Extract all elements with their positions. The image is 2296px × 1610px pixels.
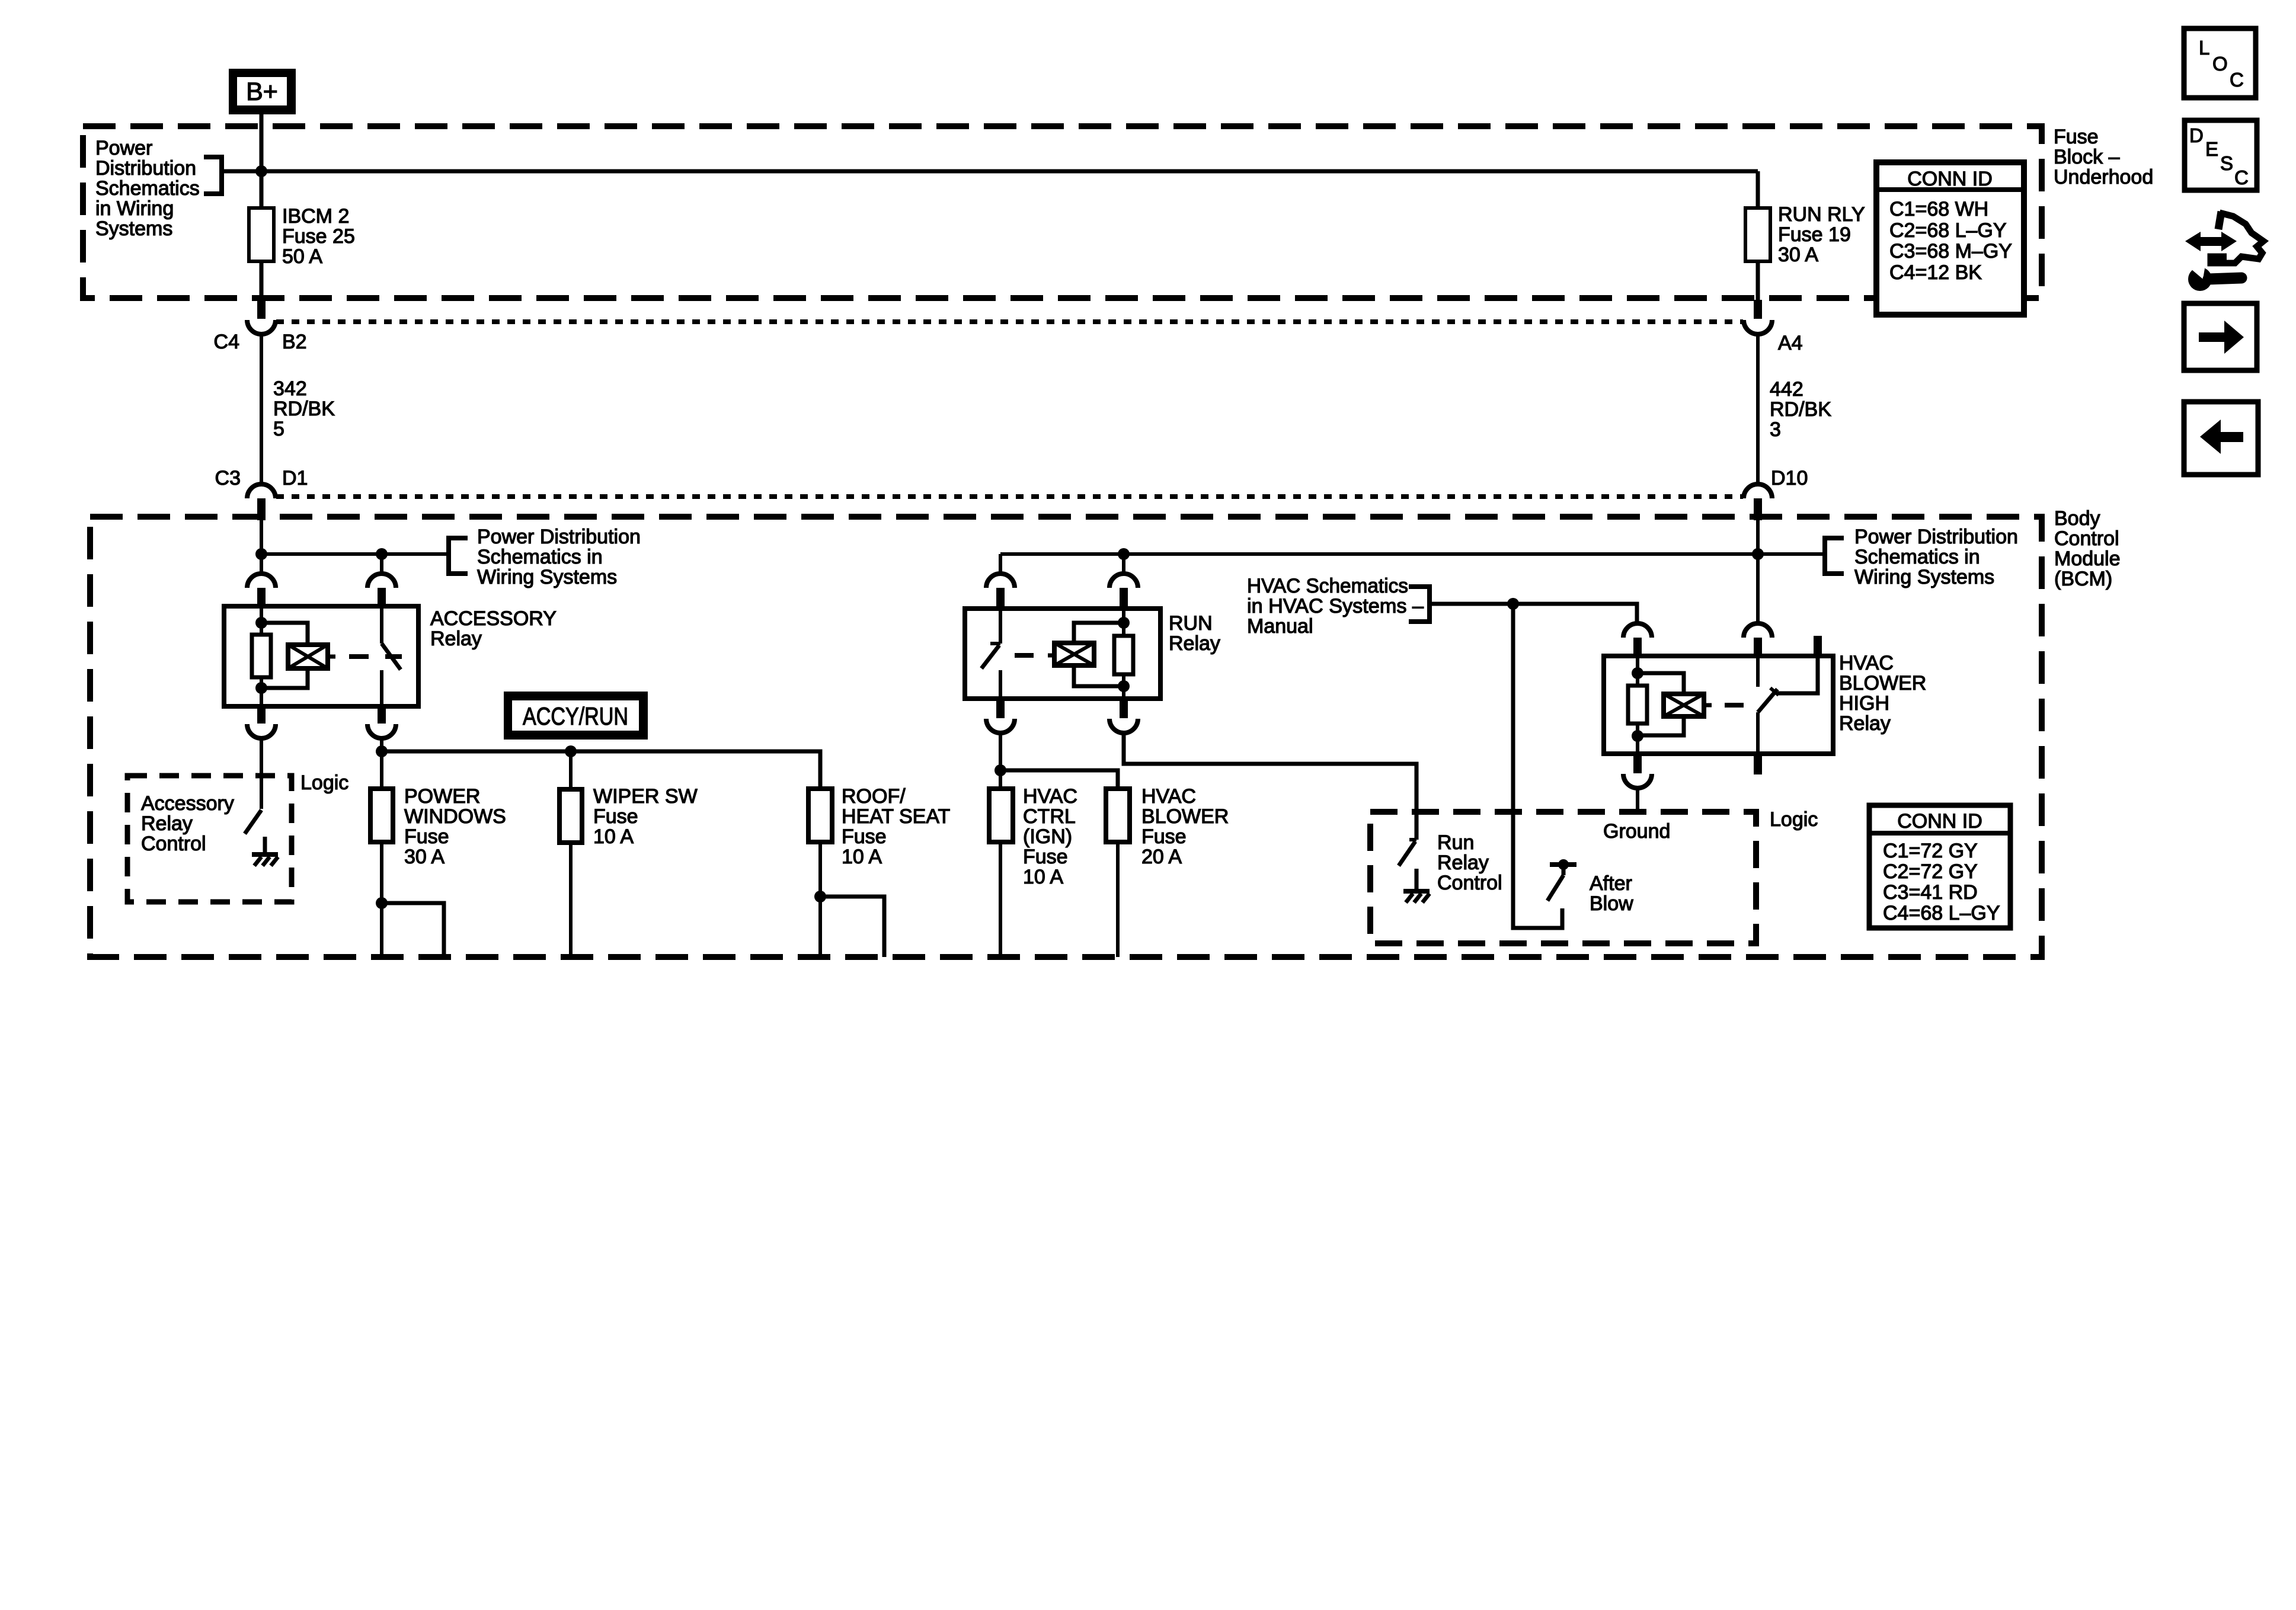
note text: Power Distribution Schematics in Wiring Systems (BCM left) <box>477 526 641 588</box>
svg-text:B+: B+ <box>246 78 278 106</box>
label ROOF/HEAT SEAT Fuse 10 A <box>842 785 950 868</box>
ground (accessory relay control) <box>252 854 278 866</box>
svg-text:HVAC: HVAC <box>1023 785 1077 808</box>
svg-text:C3: C3 <box>215 467 241 489</box>
resistor in run relay <box>1114 636 1133 674</box>
svg-text:Fuse 19: Fuse 19 <box>1778 223 1851 246</box>
relay ACCESSORY Relay box <box>224 606 418 706</box>
dashed actuating link (run relay) <box>1015 653 1034 658</box>
fuse POWER WINDOWS 30A <box>370 789 393 842</box>
svg-text:Run: Run <box>1437 831 1474 854</box>
label Body Control Module (BCM) <box>2054 507 2121 590</box>
svg-text:Wiring Systems: Wiring Systems <box>477 566 617 588</box>
fuse block underhood dashed box <box>83 126 2042 298</box>
svg-text:50 A: 50 A <box>282 245 322 268</box>
CONN ID table (fuse block) <box>1876 162 2024 315</box>
wire run relay coil to run relay control <box>1124 733 1416 840</box>
svg-text:Blow: Blow <box>1590 892 1633 915</box>
svg-text:RD/BK: RD/BK <box>273 398 335 420</box>
wire label 442 RD/BK 3 <box>1770 378 1831 441</box>
svg-text:5: 5 <box>273 418 284 440</box>
label Accessory Relay Control <box>141 792 234 855</box>
bracket for BCM left power note <box>449 538 468 574</box>
svg-text:in Wiring: in Wiring <box>95 197 174 220</box>
junction node run output <box>994 764 1006 776</box>
svg-text:Ground: Ground <box>1603 820 1670 843</box>
svg-text:Relay: Relay <box>1169 632 1220 655</box>
svg-text:Accessory: Accessory <box>141 792 234 815</box>
svg-text:30 A: 30 A <box>1778 244 1818 266</box>
wire roof fuse branch stub <box>820 897 884 957</box>
svg-text:ACCESSORY: ACCESSORY <box>430 607 557 630</box>
svg-text:RD/BK: RD/BK <box>1770 398 1831 421</box>
wire main B+ feed bus <box>222 169 1758 174</box>
body control module dashed box <box>90 517 2042 957</box>
hvac relay switch <box>1758 656 1779 754</box>
label IBCM 2 Fuse 25 50 A <box>282 205 355 268</box>
svg-text:HVAC: HVAC <box>1141 785 1196 808</box>
svg-text:CTRL: CTRL <box>1023 805 1076 828</box>
svg-text:After: After <box>1590 872 1632 895</box>
svg-text:Fuse: Fuse <box>593 805 638 828</box>
svg-text:Relay: Relay <box>141 812 193 835</box>
svg-text:C2=72 GY: C2=72 GY <box>1883 860 1978 883</box>
wire hvac relay switch output to stub <box>1778 656 1818 693</box>
bracket for fuse-block note <box>204 157 222 194</box>
wire hvac coil ground lead <box>1636 788 1639 813</box>
svg-text:Fuse 25: Fuse 25 <box>282 225 355 248</box>
svg-text:Fuse: Fuse <box>842 825 887 848</box>
svg-text:Schematics in: Schematics in <box>1854 546 1980 568</box>
label Run Relay Control <box>1437 831 1502 894</box>
label WIPER SW Fuse 10 A <box>593 785 698 848</box>
bracket for HVAC note <box>1409 587 1430 622</box>
icon schematic-symbols legend (double arrow, outline, wrench) <box>2184 212 2263 291</box>
label RUN RLY Fuse 19 30 A <box>1778 203 1865 266</box>
svg-text:B2: B2 <box>282 331 307 353</box>
label POWER WINDOWS Fuse 30 A <box>404 785 506 868</box>
run relay resistor branch <box>1118 609 1130 699</box>
accessory relay control switch <box>245 810 265 853</box>
svg-text:IBCM 2: IBCM 2 <box>282 205 349 228</box>
wire B+ down to fuse block <box>260 114 264 208</box>
svg-text:20 A: 20 A <box>1141 846 1182 868</box>
svg-text:Power Distribution: Power Distribution <box>477 526 641 548</box>
junction node at B+ feed <box>255 165 267 177</box>
svg-text:Fuse: Fuse <box>2054 126 2099 148</box>
relay HVAC BLOWER HIGH box <box>1604 656 1833 754</box>
junction node accessory switch drop <box>376 548 388 560</box>
run relay top-right pin connector <box>1109 574 1138 609</box>
svg-text:342: 342 <box>273 377 307 400</box>
svg-text:Fuse: Fuse <box>1141 825 1187 848</box>
svg-text:442: 442 <box>1770 378 1803 401</box>
svg-text:10 A: 10 A <box>1023 866 1063 888</box>
run relay control switch <box>1399 840 1416 890</box>
hvac relay top-middle pin connector <box>1744 623 1772 656</box>
wire drop to accessory relay coil <box>260 554 263 575</box>
svg-text:C4=68 L–GY: C4=68 L–GY <box>1883 902 2000 924</box>
ground (run relay control) <box>1403 891 1430 902</box>
svg-text:Control: Control <box>141 833 206 855</box>
wire drop to accessory relay switch <box>380 554 383 575</box>
wire BCM left feed bus <box>261 552 449 556</box>
accessory relay coil loop wiring <box>261 623 308 688</box>
dotted interconnect line row 1 <box>276 319 1743 324</box>
svg-text:Module: Module <box>2054 548 2121 570</box>
fuse RUN RLY Fuse 19 30A <box>1745 208 1770 261</box>
wire run relay switch output to fuses <box>999 733 1002 789</box>
svg-text:Systems: Systems <box>95 217 172 240</box>
junction node accessory output <box>376 745 388 757</box>
icon LOC box <box>2184 28 2256 98</box>
node label box ACCY/RUN <box>504 692 648 740</box>
connector D10 socket and pin <box>1744 484 1772 623</box>
label Fuse Block - Underhood <box>2054 126 2153 188</box>
wire power windows fuse output <box>380 842 383 957</box>
resistor in accessory relay <box>252 635 271 677</box>
wire after blow feeder <box>1513 604 1562 928</box>
note text: HVAC Schematics in HVAC Systems - Manual <box>1247 575 1424 638</box>
dashed actuating link (hvac relay) <box>1725 703 1744 708</box>
svg-text:Control: Control <box>1437 872 1502 894</box>
coil solenoid X-box (hvac relay) <box>1664 694 1712 716</box>
wire drop to run relay switch <box>999 554 1002 575</box>
junction node HVAC feed / after blow <box>1507 598 1519 610</box>
note text: Power Distribution Schematics in Wiring Systems (BCM right) <box>1854 526 2018 588</box>
svg-text:D1: D1 <box>282 467 308 489</box>
svg-text:10 A: 10 A <box>842 846 882 868</box>
svg-text:C1=72 GY: C1=72 GY <box>1883 840 1978 862</box>
accessory relay switch <box>382 606 401 706</box>
hvac relay bottom-left pin connector <box>1623 754 1652 788</box>
svg-text:Power Distribution: Power Distribution <box>1854 526 2018 548</box>
accessory relay top-right pin connector <box>367 574 396 606</box>
fuse ROOF/HEAT SEAT 10A <box>808 789 832 842</box>
label HVAC BLOWER HIGH Relay <box>1839 652 1926 735</box>
hvac relay top-left pin connector <box>1623 623 1652 656</box>
svg-text:HIGH: HIGH <box>1839 692 1889 715</box>
junction node wiper sw drop <box>565 745 577 757</box>
svg-text:Control: Control <box>2054 527 2119 550</box>
svg-text:Logic: Logic <box>1770 808 1818 831</box>
svg-text:L: L <box>2199 37 2209 59</box>
svg-text:Schematics in: Schematics in <box>477 546 603 568</box>
svg-text:ACCY/RUN: ACCY/RUN <box>523 702 628 730</box>
label RUN Relay <box>1169 612 1220 655</box>
coil solenoid X-box (accessory relay) <box>288 645 335 668</box>
svg-text:RUN: RUN <box>1169 612 1213 635</box>
wire IBCM2 fuse to connector C4 <box>260 261 264 301</box>
wire drop to wiper sw fuse <box>569 751 573 789</box>
svg-text:Relay: Relay <box>1839 712 1891 735</box>
svg-text:WIPER SW: WIPER SW <box>593 785 698 808</box>
run relay top-left pin connector <box>986 574 1015 609</box>
svg-text:Relay: Relay <box>1437 852 1489 874</box>
svg-text:Block –: Block – <box>2054 146 2120 168</box>
hvac relay bottom-middle stub pin <box>1754 754 1762 774</box>
svg-text:HVAC Schematics: HVAC Schematics <box>1247 575 1408 597</box>
accessory relay coil branch wiring <box>255 606 267 706</box>
svg-text:C: C <box>2234 167 2249 188</box>
run relay switch <box>981 609 1000 699</box>
wire HVAC control feed <box>1430 604 1637 623</box>
junction node run relay coil drop <box>1118 548 1130 560</box>
run relay control dashed box <box>1370 812 1756 943</box>
svg-text:Manual: Manual <box>1247 615 1313 638</box>
label ACCESSORY Relay <box>430 607 557 650</box>
svg-text:BLOWER: BLOWER <box>1839 672 1926 694</box>
wire drop to power windows fuse <box>380 751 383 789</box>
wire ACCY/RUN bus <box>382 751 820 789</box>
icon forward-arrow box <box>2184 303 2257 370</box>
svg-text:Wiring Systems: Wiring Systems <box>1854 566 1994 588</box>
hvac relay top-right stub pin <box>1814 636 1822 656</box>
svg-text:Fuse: Fuse <box>1023 846 1068 868</box>
dotted interconnect line row 2 <box>276 494 1743 499</box>
junction node power windows branch <box>376 897 388 909</box>
svg-text:Schematics: Schematics <box>95 177 200 200</box>
connector C3/D1 socket and pin <box>247 484 276 554</box>
svg-text:3: 3 <box>1770 418 1781 441</box>
svg-text:Underhood: Underhood <box>2054 166 2153 188</box>
svg-text:Relay: Relay <box>430 628 482 650</box>
accessory relay bottom-left pin connector <box>247 706 276 738</box>
resistor in hvac relay <box>1628 686 1647 724</box>
battery feed terminal B+ <box>229 69 296 114</box>
after blow switch <box>1547 859 1576 901</box>
wire run output branch to hvac blower fuse <box>1000 770 1118 789</box>
junction node D10 feed <box>1752 548 1764 560</box>
fuse HVAC BLOWER 20A <box>1106 789 1130 842</box>
svg-text:CONN ID: CONN ID <box>1897 810 1982 833</box>
accessory relay bottom-right pin connector <box>367 706 396 738</box>
run relay coil loop wiring <box>1074 623 1124 686</box>
accessory relay control dashed box <box>127 776 292 902</box>
svg-text:Fuse: Fuse <box>404 825 449 848</box>
svg-text:Logic: Logic <box>300 772 348 794</box>
svg-text:10 A: 10 A <box>593 825 634 848</box>
svg-text:C1=68 WH: C1=68 WH <box>1889 198 1988 220</box>
svg-text:C3=68 M–GY: C3=68 M–GY <box>1889 240 2012 263</box>
icon DESC box <box>2185 120 2257 190</box>
accessory relay top-left pin connector <box>247 574 276 606</box>
bracket for BCM right power note <box>1825 538 1844 574</box>
svg-text:HVAC: HVAC <box>1839 652 1894 674</box>
hvac relay coil branch wiring <box>1632 656 1643 754</box>
fuse WIPER SW 10A <box>559 789 582 843</box>
svg-text:in HVAC Systems –: in HVAC Systems – <box>1247 595 1424 617</box>
wire accessory coil to control switch <box>260 738 263 809</box>
wire hvac ctrl fuse output <box>999 842 1002 957</box>
svg-text:30 A: 30 A <box>404 846 445 868</box>
svg-text:(BCM): (BCM) <box>2054 568 2112 590</box>
svg-text:D10: D10 <box>1771 467 1808 489</box>
svg-text:(IGN): (IGN) <box>1023 825 1072 848</box>
svg-text:A4: A4 <box>1778 332 1803 354</box>
wire roof/heat seat fuse output <box>818 842 822 957</box>
svg-text:Distribution: Distribution <box>95 157 196 180</box>
svg-text:E: E <box>2205 138 2218 160</box>
wire hvac blower fuse output <box>1116 842 1120 957</box>
svg-text:D: D <box>2189 124 2204 146</box>
wire wiper sw fuse output <box>569 843 573 957</box>
fuse HVAC CTRL (IGN) 10A <box>989 789 1013 842</box>
wire accessory switch to ACCY/RUN bus <box>380 738 383 751</box>
dashed actuating link (accessory relay) <box>349 654 402 659</box>
svg-text:S: S <box>2220 152 2233 174</box>
svg-text:WINDOWS: WINDOWS <box>404 805 506 828</box>
run relay bottom-left pin connector <box>986 699 1015 733</box>
hvac relay coil loop wiring <box>1638 673 1684 735</box>
svg-text:HEAT SEAT: HEAT SEAT <box>842 805 950 828</box>
svg-text:Body: Body <box>2054 507 2100 530</box>
svg-text:POWER: POWER <box>404 785 480 808</box>
connector C4/B2 pin and socket <box>247 300 276 485</box>
icon back-arrow box <box>2184 402 2258 475</box>
wire feed down to RUN RLY fuse <box>1756 171 1760 208</box>
relay RUN Relay box <box>965 609 1160 699</box>
wire RUN RLY fuse to connector A4 <box>1756 261 1760 301</box>
junction node C3 feed <box>255 548 267 560</box>
CONN ID table (BCM) <box>1869 805 2010 928</box>
junction node roof fuse branch <box>814 891 826 902</box>
fuse IBCM 2 Fuse 25 50A <box>249 208 274 261</box>
wire label 342 RD/BK 5 <box>273 377 335 440</box>
svg-text:BLOWER: BLOWER <box>1141 805 1229 828</box>
run relay bottom-right pin connector <box>1109 699 1138 733</box>
svg-text:Power: Power <box>95 137 152 159</box>
svg-text:CONN ID: CONN ID <box>1907 168 1993 190</box>
wire power windows branch stub <box>382 903 444 957</box>
svg-text:C4: C4 <box>214 331 239 353</box>
svg-text:C2=68 L–GY: C2=68 L–GY <box>1889 219 2007 242</box>
coil solenoid X-box (run relay) <box>1048 643 1094 665</box>
svg-text:C4=12 BK: C4=12 BK <box>1889 261 1982 284</box>
label HVAC BLOWER Fuse 20 A <box>1141 785 1229 868</box>
svg-text:C: C <box>2230 69 2244 91</box>
label HVAC CTRL (IGN) Fuse 10 A <box>1023 785 1077 888</box>
svg-text:ROOF/: ROOF/ <box>842 785 906 808</box>
svg-text:RUN RLY: RUN RLY <box>1778 203 1865 226</box>
svg-text:O: O <box>2212 53 2228 75</box>
svg-text:C3=41 RD: C3=41 RD <box>1883 881 1978 904</box>
label After Blow <box>1590 872 1633 915</box>
note text: Power Distribution Schematics in Wiring Systems (fuse block) <box>95 137 200 240</box>
wire drop to run relay coil <box>1122 554 1125 575</box>
connector A4 pin and socket <box>1744 300 1772 485</box>
wire BCM right feed bus <box>1000 552 1825 556</box>
